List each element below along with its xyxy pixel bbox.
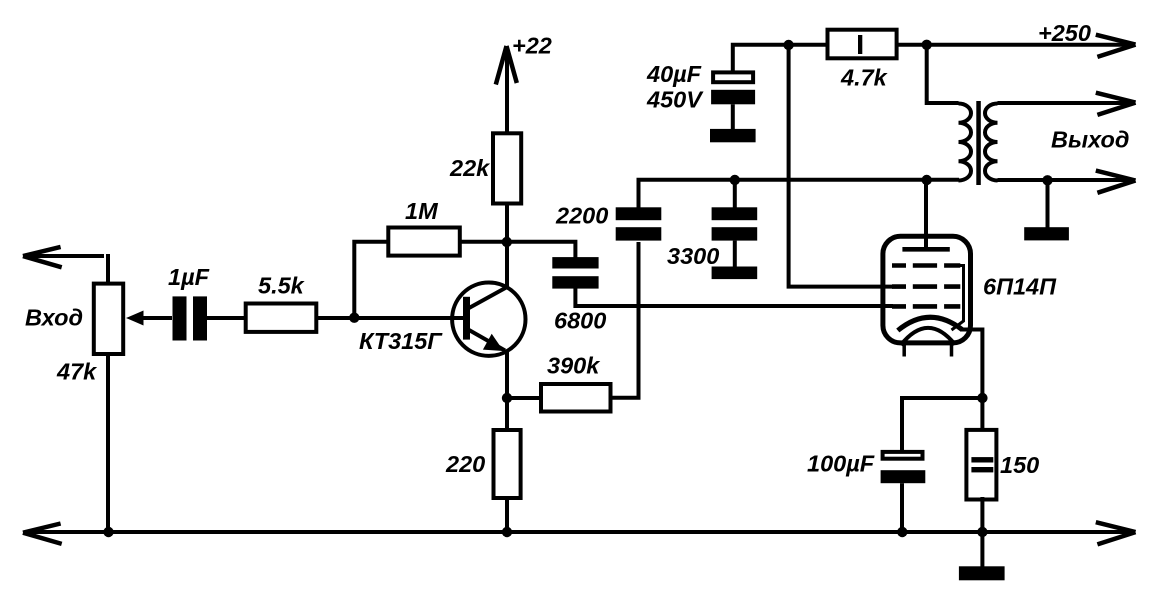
svg-text:1µF: 1µF (168, 264, 210, 290)
svg-text:220: 220 (445, 451, 485, 477)
transformer secondary winding (985, 104, 998, 181)
capacitor 40µF 450V (711, 72, 755, 129)
wire secondary tap to ground (1046, 180, 1050, 228)
resistor 220 (494, 430, 521, 498)
tube cathode arc (898, 317, 962, 330)
tube g3 to cathode link (952, 266, 964, 331)
resistor 1M (388, 228, 460, 256)
svg-text:22k: 22k (449, 155, 491, 181)
input terminal arrow (23, 247, 104, 267)
junction 150 ground (977, 527, 987, 537)
junction 100µF ground (897, 527, 907, 537)
wire emitter node to 220 (505, 398, 509, 430)
svg-text:КТ315Г: КТ315Г (359, 328, 443, 354)
svg-text:1M: 1M (405, 198, 438, 224)
resistor 4.7k (828, 30, 897, 59)
svg-text:450V: 450V (646, 86, 704, 112)
svg-text:390k: 390k (547, 352, 601, 378)
wire 390k right up to 2200 (610, 242, 639, 398)
svg-text:Вход: Вход (25, 305, 83, 331)
svg-text:Выход: Выход (1051, 127, 1129, 153)
tube 6П14П envelope (883, 236, 971, 343)
junction anode to primary (922, 175, 932, 185)
transformer core (976, 101, 981, 185)
svg-text:6П14П: 6П14П (983, 274, 1057, 300)
wire base node up to 1M (354, 242, 388, 318)
wire 2200 top to anode rail (639, 180, 960, 208)
ground rail wire (30, 530, 1131, 534)
wire screen feed down to tube g2 (789, 45, 893, 287)
transformer primary winding (959, 104, 972, 181)
terminal arrow ground right (1096, 522, 1136, 544)
junction emitter node (502, 393, 512, 403)
junction 3300 tap (730, 175, 740, 185)
svg-text:47k: 47k (56, 359, 98, 385)
terminal arrow output bottom (1096, 171, 1136, 193)
tube grid g1 dashes (892, 304, 960, 309)
junction collector node (502, 237, 512, 247)
wire 5.5k to transistor base (316, 316, 464, 320)
wire rail stub to ground symbol (980, 532, 984, 567)
svg-text:2200: 2200 (555, 202, 608, 228)
svg-text:100µF: 100µF (807, 451, 875, 477)
potentiometer 47k body (94, 284, 123, 354)
wire input down to potentiometer (106, 256, 108, 283)
tube grid g2 dashes (892, 284, 960, 289)
transistor КТ315Г (452, 283, 525, 356)
tube anode lead (924, 180, 928, 249)
wire cathode node to 100µF (902, 398, 982, 451)
ground under secondary (1024, 227, 1069, 240)
junction screen feed (783, 40, 793, 50)
capacitor 100µF (881, 452, 926, 532)
resistor 150 (966, 430, 996, 500)
wire secondary top to output arrow (998, 101, 1132, 105)
svg-text:40µF: 40µF (646, 61, 702, 87)
wire 150 to ground rail (980, 497, 984, 532)
svg-text:6800: 6800 (554, 308, 606, 334)
wire potentiometer bottom to ground rail (106, 354, 110, 532)
capacitor 2200 (616, 207, 662, 240)
wire cap to 5.5k (207, 316, 245, 320)
capacitor 3300 (712, 180, 758, 267)
capacitor C1 1µF (173, 296, 208, 340)
tube heater arc (901, 328, 955, 345)
wire secondary bottom to output arrow (998, 178, 1132, 182)
wire 1M to collector node to 6800 (459, 242, 575, 258)
ground under 40µF (710, 129, 756, 142)
svg-text:150: 150 (1000, 452, 1039, 478)
junction base node (349, 313, 359, 323)
wire emitter node to 390k (507, 396, 541, 400)
potentiometer wiper arrow (126, 311, 172, 326)
resistor 5.5k (246, 304, 317, 332)
terminal arrow +250 (1096, 35, 1136, 57)
resistor 390k (541, 384, 611, 412)
wire 6800 to tube grid g1 (575, 288, 893, 306)
svg-text:3300: 3300 (667, 243, 719, 269)
svg-text:5.5k: 5.5k (258, 273, 306, 299)
wire B+ rail to +250 (897, 43, 1131, 47)
tube heater legs (904, 344, 951, 357)
wire B+ down to primary top (927, 45, 959, 103)
wire cathode out to cathode node (960, 330, 982, 401)
junction B+ to primary (922, 40, 932, 50)
junction pot-ground (103, 527, 113, 537)
junction cathode node (977, 393, 987, 403)
ground under rail (959, 566, 1005, 580)
tube grid g3 dashes (892, 263, 960, 268)
svg-text:4.7k: 4.7k (840, 64, 889, 90)
resistor 22k (493, 133, 521, 203)
wire collector up to 22k (505, 204, 509, 287)
supply arrow +22 (496, 46, 517, 133)
ground under 3300 (712, 267, 758, 280)
svg-text:+22: +22 (512, 33, 552, 59)
capacitor 6800 (552, 257, 598, 289)
terminal arrow output top (1096, 93, 1136, 115)
wire 220 to ground rail (505, 498, 509, 532)
terminal arrow ground left (23, 524, 62, 544)
wire cathode node to 150 (980, 398, 984, 429)
wire emitter down (505, 350, 509, 400)
tube anode bar (902, 247, 949, 252)
wire top rail 40µF corner to 4.7k (733, 45, 827, 71)
junction 220-ground (502, 527, 512, 537)
svg-text:+250: +250 (1038, 20, 1091, 46)
junction secondary ground tap (1042, 175, 1052, 185)
